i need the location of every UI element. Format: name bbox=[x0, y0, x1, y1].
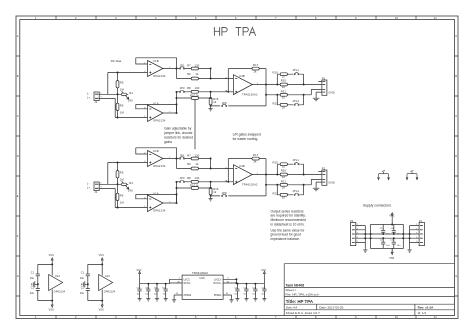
svg-text:U4C: U4C bbox=[199, 276, 204, 280]
svg-text:1k: 1k bbox=[196, 93, 200, 97]
svg-text:JPL1: JPL1 bbox=[292, 68, 299, 72]
svg-text:R8: R8 bbox=[187, 86, 191, 90]
svg-text:gains: gains bbox=[164, 140, 172, 144]
svg-text:C: C bbox=[455, 114, 457, 118]
svg-text:C2: C2 bbox=[31, 286, 35, 289]
svg-text:1M: 1M bbox=[120, 111, 125, 115]
svg-text:D: D bbox=[17, 154, 19, 158]
svg-text:1: 1 bbox=[416, 224, 417, 226]
svg-text:Supply connectors: Supply connectors bbox=[363, 203, 391, 207]
svg-text:ground lead for good: ground lead for good bbox=[271, 233, 302, 237]
svg-text:2: 2 bbox=[144, 63, 145, 65]
svg-text:10: 10 bbox=[282, 85, 286, 89]
svg-text:TPA6120A2: TPA6120A2 bbox=[242, 93, 258, 97]
svg-text:1: 1 bbox=[257, 83, 258, 85]
svg-text:JPL4: JPL4 bbox=[292, 99, 299, 103]
svg-text:R7: R7 bbox=[187, 63, 191, 67]
svg-text:DC bias: DC bias bbox=[111, 59, 122, 63]
svg-text:C: C bbox=[17, 114, 19, 118]
svg-text:VCC: VCC bbox=[49, 254, 55, 257]
svg-text:P2: P2 bbox=[322, 77, 326, 81]
svg-text:10: 10 bbox=[282, 75, 286, 79]
svg-text:1M: 1M bbox=[120, 87, 125, 91]
svg-text:OPA2134: OPA2134 bbox=[153, 74, 166, 78]
svg-text:LVCC-: LVCC- bbox=[184, 278, 191, 281]
svg-text:LVCC+: LVCC+ bbox=[214, 278, 222, 281]
svg-text:U1C: U1C bbox=[55, 275, 60, 278]
svg-text:B: B bbox=[17, 74, 19, 78]
svg-text:10u: 10u bbox=[30, 277, 35, 280]
svg-text:A: A bbox=[455, 34, 457, 38]
svg-text:L/R gates swapped: L/R gates swapped bbox=[233, 132, 261, 136]
svg-text:R6: R6 bbox=[120, 104, 124, 108]
svg-text:2: 2 bbox=[100, 92, 101, 94]
svg-text:for easier routing.: for easier routing. bbox=[233, 137, 259, 141]
svg-text:R4: R4 bbox=[129, 91, 133, 95]
svg-text:Title: HP TPA: Title: HP TPA bbox=[286, 299, 314, 304]
svg-text:PPAD1: PPAD1 bbox=[214, 294, 222, 297]
svg-text:10: 10 bbox=[282, 95, 286, 99]
svg-text:Rev: v1.0A: Rev: v1.0A bbox=[418, 306, 435, 310]
svg-text:B: B bbox=[455, 74, 457, 78]
svg-text:PPAD2: PPAD2 bbox=[184, 294, 192, 297]
svg-text:RVCC+: RVCC+ bbox=[213, 282, 222, 285]
svg-text:J1: J1 bbox=[94, 100, 97, 104]
svg-text:2: 2 bbox=[357, 228, 358, 230]
svg-text:JP1: JP1 bbox=[180, 63, 185, 67]
svg-text:A: A bbox=[17, 34, 19, 38]
svg-text:10: 10 bbox=[282, 105, 286, 109]
svg-text:1k: 1k bbox=[213, 100, 217, 104]
svg-text:R22: R22 bbox=[273, 101, 279, 105]
svg-text:1: 1 bbox=[357, 224, 358, 226]
svg-text:R21: R21 bbox=[281, 90, 287, 94]
svg-text:L+: L+ bbox=[87, 95, 91, 99]
svg-text:10u: 10u bbox=[30, 292, 35, 295]
svg-text:JP9: JP9 bbox=[222, 101, 227, 105]
svg-text:resistors for desired: resistors for desired bbox=[164, 135, 193, 139]
svg-text:OPA2134: OPA2134 bbox=[153, 119, 166, 123]
svg-text:jumper link, choose: jumper link, choose bbox=[163, 131, 193, 135]
svg-text:Gain adjustable by: Gain adjustable by bbox=[164, 127, 192, 131]
svg-text:5: 5 bbox=[144, 116, 145, 118]
svg-text:1k: 1k bbox=[253, 70, 257, 74]
svg-text:U1A: U1A bbox=[153, 101, 159, 105]
svg-text:E: E bbox=[455, 194, 457, 198]
svg-text:G: G bbox=[455, 274, 457, 278]
svg-text:7: 7 bbox=[169, 112, 170, 114]
svg-text:1: 1 bbox=[169, 67, 170, 69]
svg-text:L-: L- bbox=[87, 92, 90, 96]
svg-text:1: 1 bbox=[101, 97, 102, 99]
svg-text:OPA2134: OPA2134 bbox=[54, 290, 66, 293]
svg-text:Tami N0408: Tami N0408 bbox=[286, 283, 305, 287]
svg-text:Minimum recommended: Minimum recommended bbox=[271, 218, 307, 222]
svg-text:C1: C1 bbox=[31, 271, 35, 274]
svg-text:3: 3 bbox=[144, 71, 145, 73]
svg-text:5: 5 bbox=[357, 241, 358, 243]
svg-text:JP3: JP3 bbox=[180, 86, 185, 90]
svg-text:VCC: VCC bbox=[389, 214, 394, 217]
svg-text:G: G bbox=[17, 274, 19, 278]
svg-text:KiCad E.D.A. kicad 4.0.7: KiCad E.D.A. kicad 4.0.7 bbox=[286, 311, 320, 315]
svg-text:VCC: VCC bbox=[136, 269, 141, 272]
svg-text:TPA6120A2: TPA6120A2 bbox=[192, 271, 208, 275]
svg-text:Output series resistors: Output series resistors bbox=[271, 209, 304, 213]
svg-text:VSS: VSS bbox=[49, 309, 55, 312]
svg-text:GND: GND bbox=[328, 91, 334, 95]
svg-text:5: 5 bbox=[416, 241, 417, 243]
svg-text:Date: 2017-03-26: Date: 2017-03-26 bbox=[319, 306, 343, 310]
svg-text:U4B: U4B bbox=[239, 74, 245, 78]
svg-text:U1B: U1B bbox=[153, 59, 159, 63]
svg-text:Id: 1/1: Id: 1/1 bbox=[418, 311, 427, 315]
svg-text:R19: R19 bbox=[273, 70, 279, 74]
svg-text:VCC: VCC bbox=[261, 269, 266, 272]
svg-text:D: D bbox=[455, 154, 457, 158]
svg-text:VSS: VSS bbox=[389, 257, 394, 260]
svg-text:6: 6 bbox=[144, 107, 145, 109]
svg-text:are required for stability.: are required for stability. bbox=[271, 214, 306, 218]
svg-text:2: 2 bbox=[416, 228, 417, 230]
svg-text:E: E bbox=[17, 194, 19, 198]
svg-text:R5: R5 bbox=[120, 80, 124, 84]
svg-text:RVCC-: RVCC- bbox=[184, 282, 192, 285]
svg-text:4: 4 bbox=[416, 237, 417, 239]
svg-text:3: 3 bbox=[416, 233, 417, 235]
svg-text:130: 130 bbox=[195, 63, 200, 67]
svg-text:240: 240 bbox=[128, 99, 133, 103]
svg-text:1k: 1k bbox=[195, 72, 199, 76]
svg-text:R20: R20 bbox=[281, 78, 287, 82]
svg-text:Use the same value for: Use the same value for bbox=[271, 228, 306, 232]
svg-text:Size: A4: Size: A4 bbox=[286, 306, 298, 310]
svg-text:File: HP_TPA_v10A.sch: File: HP_TPA_v10A.sch bbox=[286, 292, 319, 296]
svg-text:impedance balance.: impedance balance. bbox=[271, 237, 301, 241]
svg-text:3: 3 bbox=[357, 233, 358, 235]
svg-text:R17: R17 bbox=[253, 63, 259, 67]
svg-text:4: 4 bbox=[357, 237, 358, 239]
svg-text:R9: R9 bbox=[187, 72, 191, 76]
svg-text:130: 130 bbox=[195, 86, 200, 90]
svg-text:in datasheet is 10 ohm.: in datasheet is 10 ohm. bbox=[271, 223, 305, 227]
